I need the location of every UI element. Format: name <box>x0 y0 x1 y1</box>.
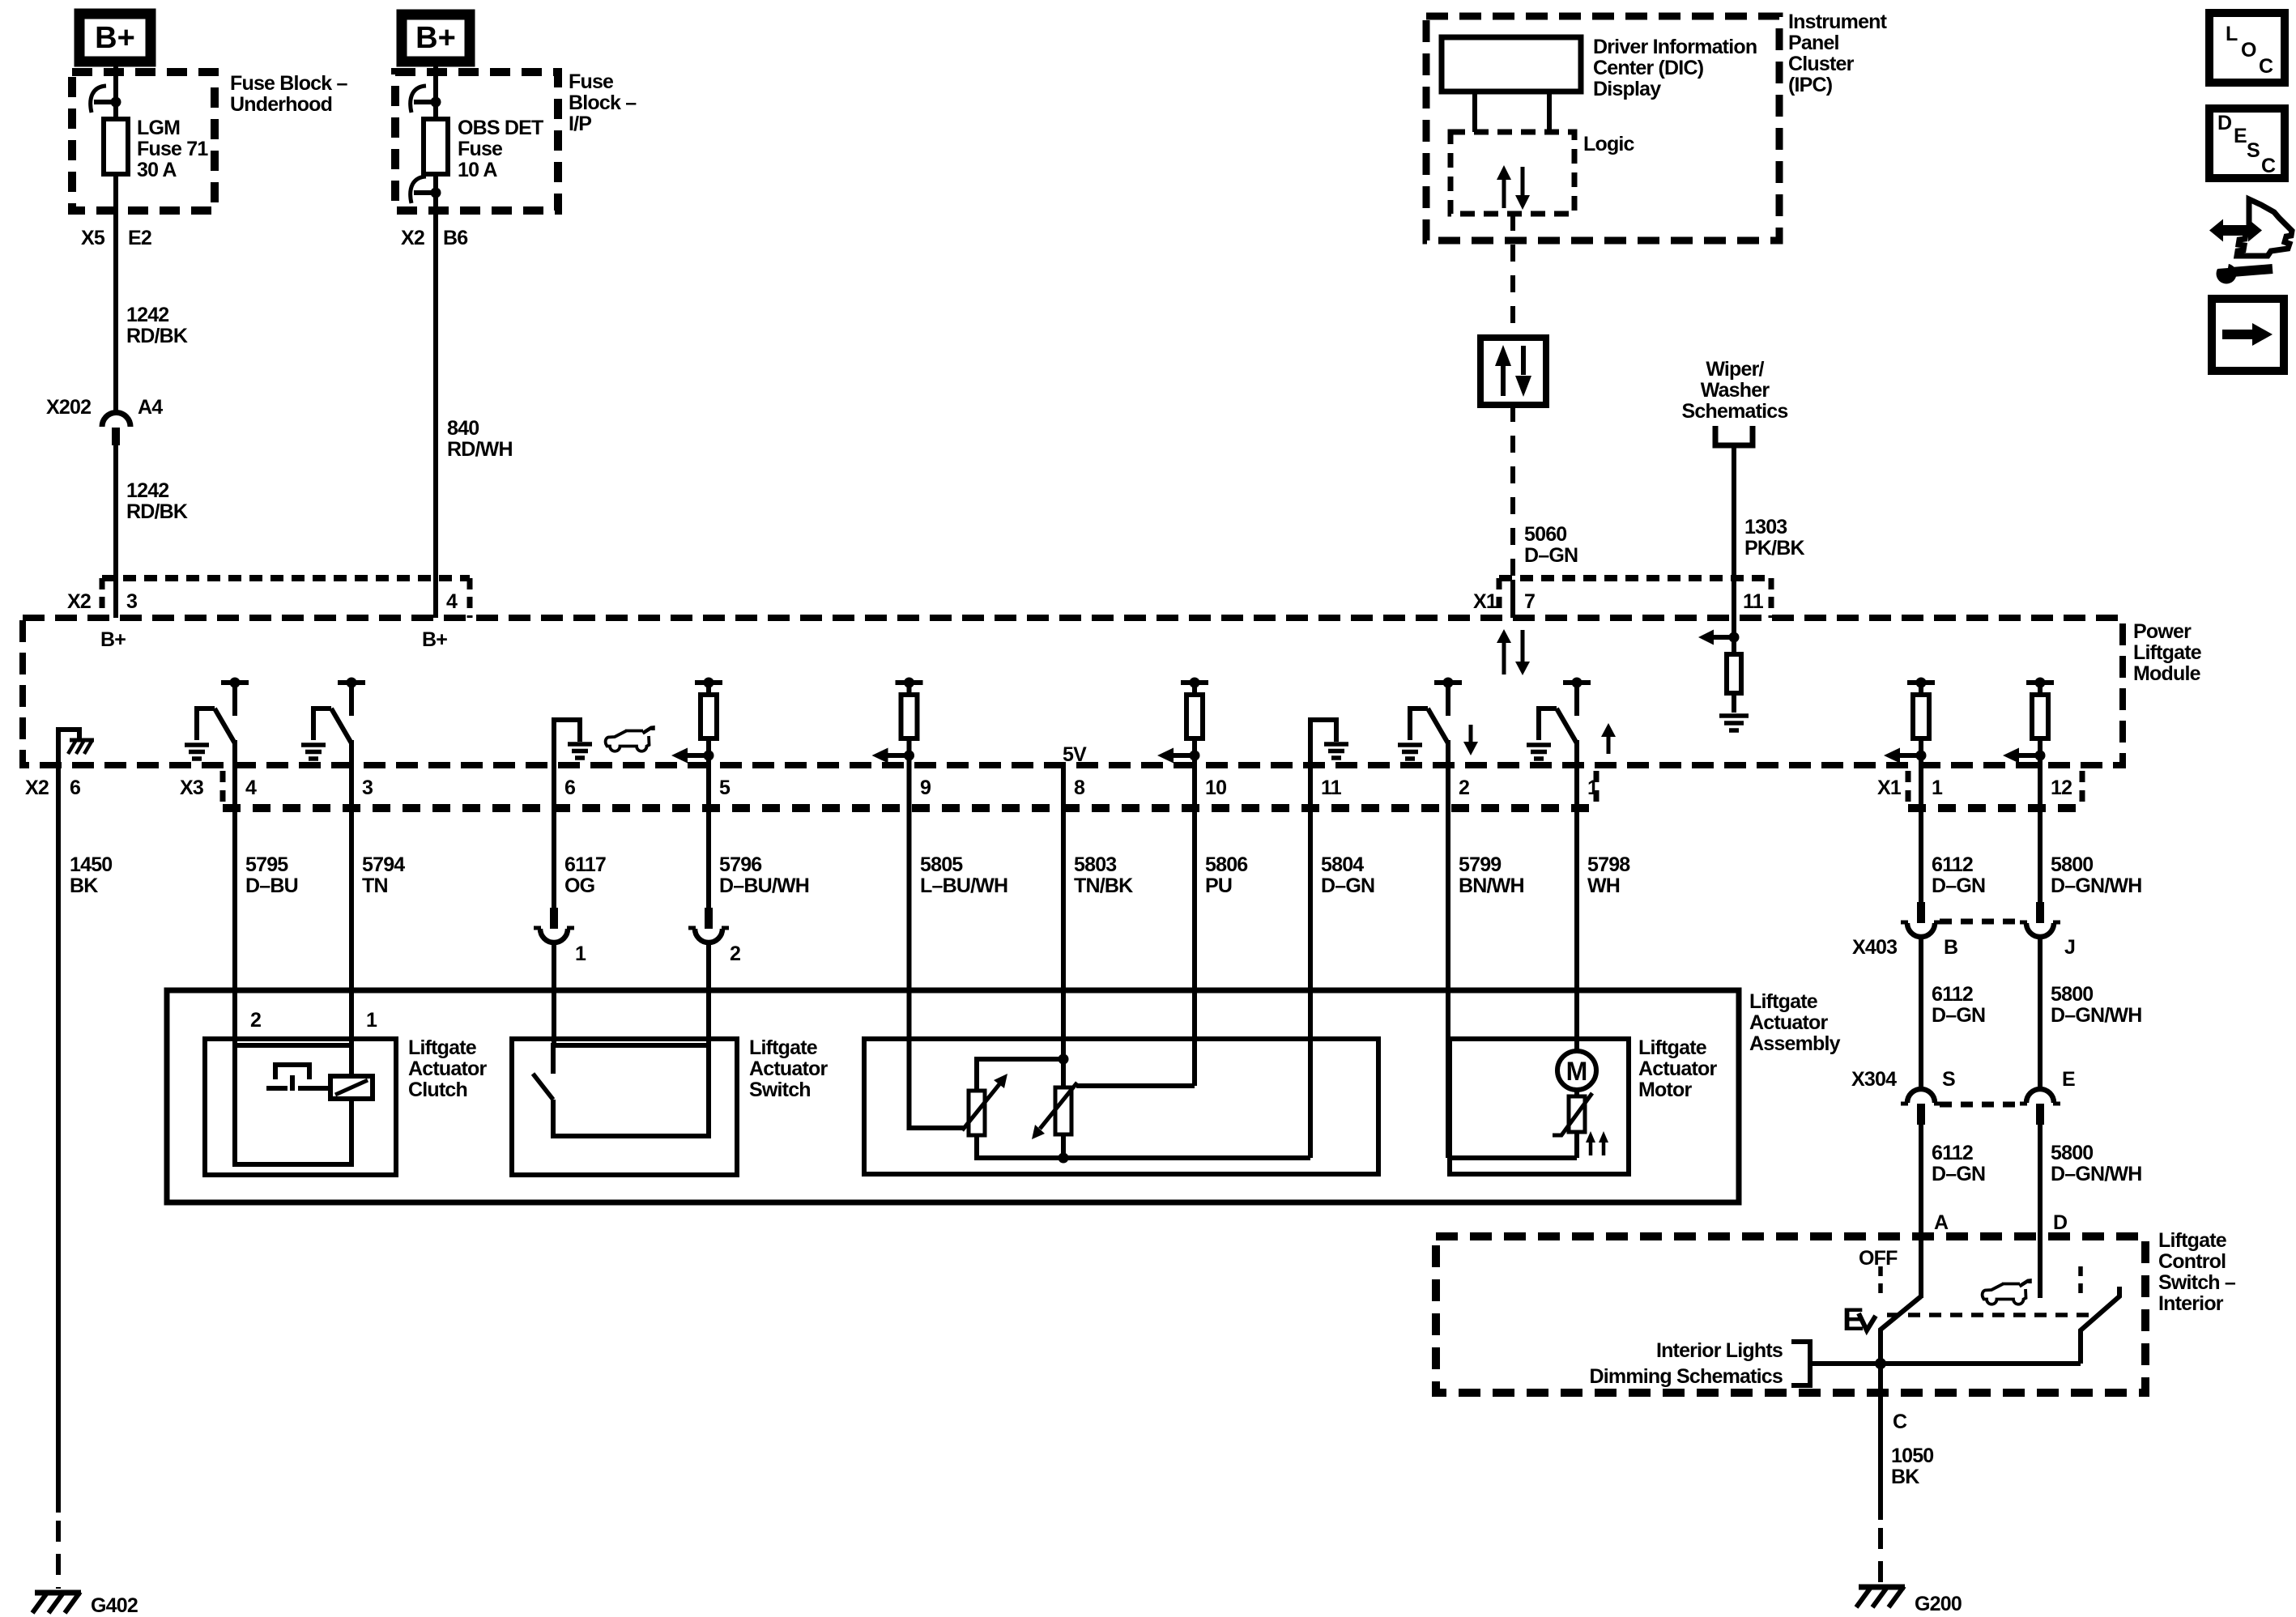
svg-text:C: C <box>2261 155 2276 177</box>
svg-text:WH: WH <box>1587 874 1620 897</box>
svg-text:2: 2 <box>250 1009 261 1032</box>
svg-text:Fuse 71: Fuse 71 <box>137 138 208 160</box>
wire 5806 PU (pin 10 to sensor) <box>1192 765 1197 1086</box>
relay contact K2 (clutch return, pin 3) <box>301 678 365 766</box>
svg-text:Actuator: Actuator <box>1749 1011 1828 1034</box>
resistor R3 (pull-up, pin 10) <box>1157 678 1208 766</box>
liftgate control switch interior (dashed box) <box>1436 1236 2145 1393</box>
wire 6112 D-GN (X304 to control switch A) <box>1919 1125 1923 1298</box>
clutch symbol L1 <box>266 1065 373 1099</box>
svg-text:4: 4 <box>446 590 458 613</box>
svg-text:B+: B+ <box>415 21 456 55</box>
svg-text:1: 1 <box>575 943 586 965</box>
earth ground with hook (pin 6 X3) <box>554 720 592 765</box>
liftgate actuator assembly (solid box) <box>167 990 1739 1202</box>
svg-text:10 A: 10 A <box>458 159 497 181</box>
svg-text:Actuator: Actuator <box>1638 1057 1717 1080</box>
svg-text:1303: 1303 <box>1744 516 1787 538</box>
svg-text:Clutch: Clutch <box>408 1079 467 1101</box>
battery feed node B+ (left) <box>79 14 151 62</box>
svg-text:2: 2 <box>730 943 740 965</box>
wire 5795 D-BU (pin 4 to clutch) <box>232 765 237 1045</box>
chassis ground return (module pin 6 X2) <box>58 730 94 765</box>
svg-text:Panel: Panel <box>1788 32 1839 54</box>
svg-text:OBS DET: OBS DET <box>458 117 543 139</box>
svg-text:B: B <box>1944 936 1957 959</box>
ground G402 <box>32 1592 81 1613</box>
svg-text:G402: G402 <box>91 1594 138 1617</box>
resistor R1 (pull-up, pin 5) <box>671 678 722 766</box>
wire B+ to fuse F1 <box>113 62 118 119</box>
svg-text:3: 3 <box>362 777 373 799</box>
liftgate actuator motor (component box) <box>1450 1039 1629 1174</box>
svg-text:BN/WH: BN/WH <box>1459 874 1524 897</box>
pin labels X2 / B6 <box>401 227 467 249</box>
svg-text:5794: 5794 <box>362 853 405 876</box>
svg-text:Schematics: Schematics <box>1682 400 1788 423</box>
svg-text:5800: 5800 <box>2051 853 2093 876</box>
svg-text:A4: A4 <box>138 396 163 419</box>
position sensor box <box>864 1039 1378 1174</box>
svg-text:Interior Lights: Interior Lights <box>1656 1339 1783 1362</box>
svg-text:J: J <box>2064 936 2075 959</box>
svg-text:C: C <box>1893 1411 1907 1433</box>
svg-text:Power: Power <box>2133 620 2192 643</box>
fuse block underhood (dashed box) <box>72 72 215 211</box>
svg-text:Instrument: Instrument <box>1788 11 1888 33</box>
svg-text:B+: B+ <box>95 21 135 55</box>
svg-text:Actuator: Actuator <box>408 1057 487 1080</box>
svg-text:TN/BK: TN/BK <box>1074 874 1133 897</box>
svg-text:1050: 1050 <box>1891 1445 1933 1467</box>
svg-text:3: 3 <box>126 590 137 613</box>
svg-text:5795: 5795 <box>245 853 288 876</box>
svg-text:X3: X3 <box>180 777 203 799</box>
wire label 5060 D-GN <box>1524 523 1578 567</box>
svg-text:PK/BK: PK/BK <box>1744 537 1805 560</box>
switch blade D (open) <box>2081 1287 2119 1364</box>
svg-text:Dimming Schematics: Dimming Schematics <box>1590 1365 1783 1388</box>
svg-text:PU: PU <box>1205 874 1232 897</box>
svg-text:Wiper/: Wiper/ <box>1706 358 1764 381</box>
svg-text:E2: E2 <box>128 227 151 249</box>
svg-text:Motor: Motor <box>1638 1079 1692 1101</box>
switch S1 contact frame <box>553 1045 709 1136</box>
serial data box with up/down arrows <box>1480 338 1546 405</box>
svg-text:D–BU: D–BU <box>245 874 298 897</box>
wire label 1303 PK/BK <box>1744 516 1805 560</box>
dashed wire logic to serial-data box <box>1510 214 1515 338</box>
svg-text:Liftgate: Liftgate <box>1638 1036 1707 1059</box>
svg-text:1: 1 <box>1587 777 1599 799</box>
svg-text:D–GN: D–GN <box>1932 1163 1985 1185</box>
svg-text:11: 11 <box>1321 777 1342 799</box>
svg-text:S: S <box>1942 1068 1955 1091</box>
svg-text:X202: X202 <box>46 396 91 419</box>
label Instrument Panel Cluster (IPC) <box>1788 11 1888 96</box>
sensor return line <box>1063 1155 1310 1160</box>
svg-text:X304: X304 <box>1851 1068 1897 1091</box>
off-page bracket (interior lights dimming) <box>1791 1342 1810 1385</box>
svg-text:Assembly: Assembly <box>1749 1032 1841 1055</box>
off-page bracket under wiper/washer <box>1715 426 1753 445</box>
wire F1 down through fuse box <box>113 174 118 413</box>
svg-text:D–BU/WH: D–BU/WH <box>719 874 809 897</box>
svg-text:M: M <box>1566 1057 1588 1086</box>
svg-text:X2: X2 <box>67 590 91 613</box>
common line to dimming schematics <box>1810 1361 2081 1366</box>
inline connector (switch pin 2) <box>688 908 729 943</box>
svg-text:D: D <box>2217 112 2232 134</box>
svg-text:X2: X2 <box>401 227 424 249</box>
liftgate actuator switch (component box) <box>512 1039 737 1175</box>
svg-text:5803: 5803 <box>1074 853 1116 876</box>
logic box (dashed) <box>1450 132 1574 214</box>
svg-text:5798: 5798 <box>1587 853 1630 876</box>
connector X2 strip (top, pins 3 and 4) <box>102 575 470 581</box>
wire 5804 D-GN (pin 11 to sensor) <box>1308 765 1313 1158</box>
wire 1050 BK (to G200) <box>1878 1364 1883 1520</box>
svg-text:6112: 6112 <box>1932 983 1973 1006</box>
svg-text:5806: 5806 <box>1205 853 1247 876</box>
wire label 1242 RD/BK (upper) <box>126 304 188 347</box>
relay contact K1 (clutch feed, pin 4) <box>185 678 249 766</box>
DIC pedestal wires <box>1475 91 1549 132</box>
wire 5794 TN (pin 3 to clutch) <box>349 765 354 1045</box>
svg-text:5800: 5800 <box>2051 983 2093 1006</box>
connector X1 strip (top) <box>1499 575 1771 581</box>
power liftgate module (dashed box) <box>23 618 2123 765</box>
sidebar icon LOC box <box>2209 13 2285 83</box>
svg-text:D: D <box>2053 1211 2067 1234</box>
fuse clip bail (top of F1) <box>91 86 106 113</box>
svg-text:Liftgate: Liftgate <box>749 1036 818 1059</box>
battery feed node B+ (second) <box>402 15 470 62</box>
svg-text:X2: X2 <box>25 777 49 799</box>
wire 6112 D-GN (X403 to X304) <box>1919 936 1923 1089</box>
relay contact K3 (motor down, pin 2) <box>1398 678 1462 766</box>
off position marker (left) <box>1878 1266 1883 1294</box>
logic up arrow <box>1502 180 1506 208</box>
connector X304 link (dashed) <box>1940 1102 2022 1108</box>
resistor R6 (pull-up, X1 pin 12) <box>2003 678 2054 766</box>
wire 6117 OG (pin 6 to switch) <box>552 765 556 908</box>
liftgate icon (module) <box>606 728 654 751</box>
double up arrows (motor) <box>1586 1131 1608 1155</box>
inline connector (switch pin 1) <box>534 908 574 943</box>
svg-text:6117: 6117 <box>564 853 606 876</box>
motor thermal protector <box>1553 1090 1592 1158</box>
svg-text:Cluster: Cluster <box>1788 53 1855 75</box>
svg-text:Module: Module <box>2133 662 2201 685</box>
DIC display box <box>1442 37 1581 91</box>
svg-text:7: 7 <box>1524 590 1535 613</box>
wire 5803 TN/BK (pin 8 to sensor) <box>1061 765 1066 1087</box>
motor return line <box>1450 1155 1577 1160</box>
svg-text:1242: 1242 <box>126 479 168 502</box>
label Wiper/Washer Schematics <box>1682 358 1788 423</box>
svg-text:E: E <box>2062 1068 2075 1091</box>
wire 5798 WH (pin 1 to motor) <box>1574 765 1579 1052</box>
dashed wire serial-data box to module pin 7 <box>1510 405 1515 580</box>
svg-text:B6: B6 <box>443 227 467 249</box>
svg-text:12: 12 <box>2051 777 2072 799</box>
svg-text:Switch –: Switch – <box>2158 1271 2236 1294</box>
svg-text:9: 9 <box>920 777 931 799</box>
resistor R2 (pull-up, pin 9) <box>872 678 923 766</box>
svg-text:Fuse: Fuse <box>569 70 614 93</box>
svg-text:Logic: Logic <box>1583 133 1635 155</box>
svg-text:Switch: Switch <box>749 1079 811 1101</box>
svg-text:11: 11 <box>1743 590 1764 613</box>
connector X403 pin J <box>2020 902 2060 937</box>
motor M1 <box>1557 1051 1596 1090</box>
svg-text:4: 4 <box>245 777 257 799</box>
svg-text:Liftgate: Liftgate <box>1749 990 1818 1013</box>
svg-text:I/P: I/P <box>569 113 591 135</box>
svg-text:5: 5 <box>719 777 731 799</box>
svg-text:Actuator: Actuator <box>749 1057 828 1080</box>
arrow down (close direction) <box>1469 725 1473 743</box>
wire 6112 D-GN (X1 pin 1 to X403 B) <box>1919 765 1923 902</box>
connector X403 link (dashed) <box>1940 919 2022 925</box>
logic down arrow <box>1521 167 1525 195</box>
junction node (pot top) <box>1059 1054 1069 1065</box>
liftgate icon (control switch) <box>1983 1281 2030 1304</box>
svg-text:RD/BK: RD/BK <box>126 500 188 523</box>
liftgate actuator clutch (component box) <box>205 1039 396 1175</box>
svg-text:(IPC): (IPC) <box>1788 74 1833 96</box>
potentiometer RP1 <box>962 1059 1063 1158</box>
wire 5799 BN/WH (pin 2 to motor) <box>1446 765 1450 1158</box>
connector X403 pin B <box>1901 902 1941 937</box>
svg-text:L: L <box>2226 23 2238 45</box>
potentiometer RP2 <box>1032 1083 1195 1158</box>
svg-text:10: 10 <box>1205 777 1226 799</box>
svg-text:E: E <box>2234 125 2247 147</box>
svg-text:Washer: Washer <box>1701 379 1770 402</box>
ground G200 <box>1856 1586 1905 1607</box>
connector X304 pin S <box>1901 1089 1941 1125</box>
fuse F2 OBS DET Fuse 10A <box>424 119 448 174</box>
wire 1450 BK (pin 6 to G402) <box>56 765 61 1513</box>
connector X304 pin E <box>2020 1089 2060 1125</box>
junction node C <box>1875 1358 1886 1369</box>
svg-text:Driver Information: Driver Information <box>1593 36 1757 58</box>
svg-text:S: S <box>2247 139 2260 162</box>
svg-text:Liftgate: Liftgate <box>2133 641 2202 664</box>
svg-text:6112: 6112 <box>1932 1142 1973 1164</box>
fuse block I/P (dashed box) <box>395 72 558 211</box>
switch S1 blade <box>533 1074 553 1100</box>
svg-text:X1: X1 <box>1473 590 1497 613</box>
svg-text:6: 6 <box>70 777 80 799</box>
svg-text:1242: 1242 <box>126 304 168 326</box>
svg-text:D–GN: D–GN <box>1524 544 1578 567</box>
svg-text:B+: B+ <box>100 628 126 651</box>
relay contact K4 (motor up, pin 1) <box>1527 678 1591 766</box>
svg-text:X403: X403 <box>1852 936 1897 959</box>
earth ground with hook (pin 11) <box>1310 720 1348 765</box>
wire F2 down to module <box>433 174 438 618</box>
label Fuse Block Underhood <box>230 72 348 116</box>
svg-text:Interior: Interior <box>2158 1292 2224 1315</box>
wire from wiper/washer to module pin 11 <box>1732 445 1736 618</box>
wire 5800 D-GN/WH (X304 to control switch D) <box>2038 1125 2043 1298</box>
svg-text:C: C <box>2259 55 2273 78</box>
switch blade A (close) <box>1881 1296 1921 1364</box>
svg-text:O: O <box>2241 39 2256 62</box>
svg-text:5060: 5060 <box>1524 523 1566 546</box>
connector X202 pin A4 (inline connector) <box>46 396 163 419</box>
svg-text:30 A: 30 A <box>137 159 177 181</box>
fuse F1 LGM Fuse 71 30A <box>104 119 128 174</box>
svg-text:A: A <box>1934 1211 1949 1234</box>
svg-text:Display: Display <box>1593 78 1661 100</box>
svg-text:BK: BK <box>1891 1466 1919 1488</box>
svg-text:840: 840 <box>447 417 479 440</box>
svg-text:Fuse Block –: Fuse Block – <box>230 72 348 95</box>
resistor R4 with ground (pin 11 input) <box>1698 618 1749 730</box>
svg-text:L–BU/WH: L–BU/WH <box>920 874 1007 897</box>
connector X1 strip (bottom, pins 1 and 12) <box>1908 804 2082 812</box>
arrow up (open direction) <box>1607 736 1611 754</box>
svg-text:RD/WH: RD/WH <box>447 438 513 461</box>
svg-text:Center (DIC): Center (DIC) <box>1593 57 1704 79</box>
sidebar icon arrow box <box>2212 299 2284 371</box>
svg-text:D–GN/WH: D–GN/WH <box>2051 874 2141 897</box>
pin labels X5 / E2 <box>81 227 151 249</box>
svg-text:D–GN: D–GN <box>1932 1004 1985 1027</box>
wire label 1242 RD/BK (lower) <box>126 479 188 523</box>
svg-text:X5: X5 <box>81 227 105 249</box>
instrument panel cluster IPC (dashed box) <box>1426 16 1779 240</box>
svg-text:Fuse: Fuse <box>458 138 503 160</box>
fuse clip bail (bottom of F2) <box>411 177 426 203</box>
svg-text:2: 2 <box>1459 777 1469 799</box>
wire label 840 RD/WH <box>447 417 513 461</box>
svg-text:5800: 5800 <box>2051 1142 2093 1164</box>
svg-text:D–GN/WH: D–GN/WH <box>2051 1004 2141 1027</box>
wire B+ to fuse F2 <box>433 62 438 119</box>
svg-text:Liftgate: Liftgate <box>2158 1229 2227 1252</box>
resistor R5 (pull-up, X1 pin 1) <box>1884 678 1935 766</box>
svg-text:D–GN/WH: D–GN/WH <box>2051 1163 2141 1185</box>
svg-text:OG: OG <box>564 874 594 897</box>
svg-text:D–GN: D–GN <box>1321 874 1374 897</box>
connector X3 strip (bottom pins) <box>223 804 1596 812</box>
serial data up/down arrows (pin 7) <box>1497 629 1530 675</box>
svg-text:OFF: OFF <box>1859 1247 1898 1270</box>
svg-text:5804: 5804 <box>1321 853 1364 876</box>
connector X2 strip (bottom, pin 6) <box>25 777 80 799</box>
clutch coil inner frame <box>235 1045 351 1164</box>
svg-text:BK: BK <box>70 874 98 897</box>
svg-text:1: 1 <box>366 1009 377 1032</box>
sidebar icon double arrow with car and wrench <box>2209 199 2292 284</box>
svg-text:B+: B+ <box>422 628 447 651</box>
wire 5796 D-BU/WH (pin 5 to switch) <box>706 765 711 908</box>
svg-text:5805: 5805 <box>920 853 963 876</box>
label Driver Information Center (DIC) Display <box>1593 36 1757 100</box>
svg-text:5V: 5V <box>1063 743 1087 766</box>
mechanical link (dashed) <box>1887 1313 2094 1317</box>
label Power Liftgate Module <box>2133 620 2202 685</box>
wire 5800 D-GN/WH (X403 to X304) <box>2038 936 2043 1089</box>
label Fuse Block I/P <box>569 70 637 135</box>
svg-text:5796: 5796 <box>719 853 761 876</box>
svg-text:TN: TN <box>362 874 388 897</box>
wire 5805 L-BU/WH (pin 9 to sensor) <box>909 765 965 1128</box>
svg-text:X1: X1 <box>1877 777 1902 799</box>
svg-text:5799: 5799 <box>1459 853 1501 876</box>
svg-text:Block –: Block – <box>569 91 637 114</box>
svg-text:Underhood: Underhood <box>230 93 332 116</box>
fuse clip bail (top of F2) <box>411 86 426 113</box>
svg-text:G200: G200 <box>1915 1593 1962 1615</box>
svg-text:Liftgate: Liftgate <box>408 1036 477 1059</box>
sidebar icon DESC box <box>2209 109 2285 178</box>
off position marker (right) <box>2078 1266 2083 1294</box>
svg-text:RD/BK: RD/BK <box>126 325 188 347</box>
svg-text:D–GN: D–GN <box>1932 874 1985 897</box>
svg-text:6: 6 <box>564 777 575 799</box>
junction node (pot bottom) <box>1059 1153 1069 1164</box>
wire 5800 D-GN/WH (X1 pin 12 to X403 J) <box>2038 765 2043 902</box>
svg-text:1450: 1450 <box>70 853 112 876</box>
svg-text:8: 8 <box>1074 777 1085 799</box>
svg-text:Control: Control <box>2158 1250 2226 1273</box>
svg-text:LGM: LGM <box>137 117 180 139</box>
svg-text:6112: 6112 <box>1932 853 1973 876</box>
svg-text:1: 1 <box>1932 777 1943 799</box>
